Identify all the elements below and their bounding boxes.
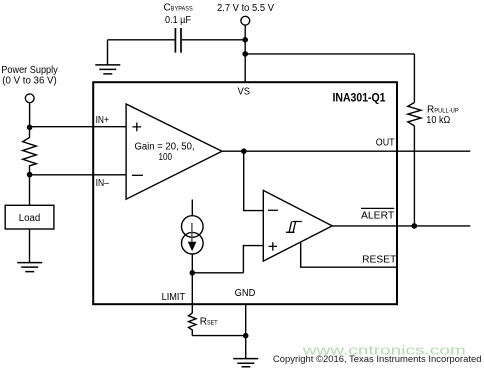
svg-text:Copyright ©2016, Texas Instrum: Copyright ©2016, Texas Instruments Incor… — [273, 354, 482, 365]
svg-text:GND: GND — [235, 288, 256, 299]
wire op-amp output OUT — [222, 150, 470, 152]
svg-text:RESET: RESET — [362, 254, 396, 265]
svg-text:VS: VS — [238, 86, 251, 97]
terminal circle supply 2.7-5.5V — [241, 16, 250, 25]
svg-text:OUT: OUT — [376, 138, 395, 149]
wire comparator output ALERT — [332, 225, 470, 227]
svg-text:0.1 µF: 0.1 µF — [165, 15, 191, 26]
svg-text:100: 100 — [158, 152, 172, 163]
wire IN- — [30, 174, 127, 176]
svg-text:RSET: RSET — [200, 316, 218, 327]
wire output to comparator minus — [244, 151, 264, 210]
resistor R set — [189, 313, 197, 336]
svg-text:INA301-Q1: INA301-Q1 — [333, 90, 386, 104]
wire R set to ground node — [192, 335, 245, 337]
svg-text:10 kΩ: 10 kΩ — [426, 115, 450, 126]
node dot limit — [190, 270, 196, 276]
resistor shunt — [23, 127, 37, 174]
IC boundary box INA301-Q1 — [93, 82, 397, 304]
svg-text:IN–: IN– — [96, 178, 110, 189]
capacitor C bypass plates — [175, 28, 181, 53]
svg-text:IN+: IN+ — [96, 115, 109, 126]
ground top left — [95, 65, 120, 74]
svg-text:LIMIT: LIMIT — [162, 292, 186, 303]
op-amp plus input mark — [132, 123, 141, 132]
op-amp U1 triangle — [126, 104, 222, 199]
node dot ground — [243, 333, 249, 339]
svg-text:Power Supply: Power Supply — [1, 65, 58, 76]
current source I1 circles — [182, 216, 204, 238]
svg-text:ALERT: ALERT — [361, 211, 394, 222]
load box — [5, 205, 54, 229]
node dot pull-up branch — [242, 51, 248, 57]
svg-text:2.7 V to 5.5 V: 2.7 V to 5.5 V — [217, 3, 274, 14]
wire comparator plus jog — [243, 246, 263, 273]
resistor R pull-up — [408, 103, 421, 126]
wire ground to capacitor — [108, 39, 175, 41]
svg-text:Load: Load — [19, 213, 41, 224]
current source stub — [191, 200, 193, 217]
wire current source to limit node — [191, 254, 193, 273]
wire pull-up rail down — [413, 54, 415, 103]
node dot bypass — [242, 37, 248, 43]
wire to load — [29, 175, 31, 206]
wire limit node to comparator plus — [192, 272, 243, 274]
ground under load — [17, 263, 42, 272]
wire supply down to VS — [244, 25, 246, 82]
wire capacitor to supply rail — [182, 39, 245, 41]
comparator plus input mark — [269, 242, 277, 250]
wire pull-up to alert — [413, 126, 415, 226]
wire load to ground — [29, 229, 31, 263]
node dot alert pull-up — [412, 223, 418, 229]
wire IN+ — [30, 126, 127, 128]
terminal circle power supply — [25, 94, 34, 103]
svg-text:CBYPASS: CBYPASS — [164, 3, 194, 14]
wire LIMIT pin down — [191, 273, 193, 313]
op-amp minus input mark — [132, 174, 143, 176]
comparator U2 triangle — [263, 190, 332, 261]
svg-text:(0 V to 36 V): (0 V to 36 V) — [2, 76, 57, 87]
label gain — [135, 141, 195, 163]
wire supply to pull-up — [245, 53, 414, 55]
current source arrow head — [188, 242, 197, 251]
current source arrow shaft — [191, 223, 193, 242]
svg-text:RPULL-UP: RPULL-UP — [427, 104, 459, 115]
node dot output — [241, 148, 247, 154]
hysteresis symbol — [286, 222, 302, 233]
wire GND pin down — [245, 304, 247, 358]
node junction dot IN+ rail — [27, 125, 33, 131]
wire bypass ground stub — [107, 40, 109, 65]
svg-text:Gain = 20, 50,: Gain = 20, 50, — [135, 141, 195, 152]
ground bottom center — [233, 359, 258, 367]
wire RESET — [301, 242, 397, 267]
label Power Supply — [1, 65, 58, 87]
label C bypass — [164, 3, 194, 26]
wire supply down to node — [29, 103, 31, 128]
label R pull-up — [426, 104, 458, 126]
comparator minus input mark — [268, 209, 278, 211]
node junction dot IN- rail — [27, 172, 33, 178]
